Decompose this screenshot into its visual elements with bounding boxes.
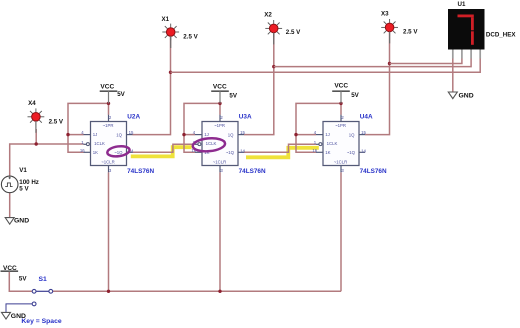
- wire VCC to U4A ~1PR pin: [340, 103, 342, 114]
- wire S1 lower throw to ground: [6, 304, 32, 312]
- wire VCC to U3A ~1PR pin: [219, 103, 221, 114]
- wire VCC branch to U2A 1J and 1K (J=K=1): [68, 103, 109, 152]
- svg-text:~1CLR: ~1CLR: [213, 159, 227, 164]
- power VCC symbol (above U3A): [211, 91, 229, 103]
- svg-text:14: 14: [361, 148, 366, 153]
- U4A pin stub 1J: [316, 134, 323, 136]
- U2A pin stub ~1PR (top): [108, 115, 110, 122]
- wire U3A ~1Q to U4A 1CLK: [244, 144, 316, 152]
- svg-text:~1Q: ~1Q: [226, 150, 235, 155]
- wire branch to U3A 1J: [184, 134, 195, 136]
- svg-text:~1PR: ~1PR: [335, 123, 346, 128]
- display U1 segment b (upper right bar of 7): [471, 17, 474, 30]
- svg-text:16: 16: [312, 148, 317, 153]
- wire U1 pin 1 to ground: [452, 59, 454, 93]
- wire branch to U4A 1J: [296, 134, 316, 136]
- svg-text:2: 2: [341, 115, 344, 120]
- svg-text:X1: X1: [162, 16, 170, 23]
- svg-text:2: 2: [109, 115, 112, 120]
- svg-text:VCC: VCC: [213, 83, 227, 90]
- U2A pin stub 1CLK with bubble: [84, 143, 87, 145]
- svg-text:~1PR: ~1PR: [214, 123, 225, 128]
- wire X1 stem: [170, 36, 172, 72]
- svg-text:GND: GND: [459, 92, 474, 99]
- svg-text:~1Q: ~1Q: [347, 150, 356, 155]
- junction clear bus at U2A: [107, 290, 110, 293]
- svg-text:GND: GND: [14, 217, 29, 224]
- svg-text:1K: 1K: [93, 150, 98, 155]
- U2A pin stub ~1Q: [127, 151, 133, 153]
- wire U2A ~1Q to U3A 1CLK: [133, 144, 196, 152]
- svg-text:VCC: VCC: [100, 83, 114, 90]
- display U1 pin 2: [461, 50, 463, 59]
- wire X3 net to display pin 2: [390, 59, 462, 64]
- svg-text:X2: X2: [264, 12, 272, 19]
- display U1 pin 4: [479, 50, 481, 59]
- U4A pin stub 1K: [316, 151, 323, 153]
- highlight mark on wire U2A ~1Q to U3A 1CLK: [131, 147, 192, 156]
- wire X2 stem: [273, 32, 275, 67]
- svg-text:~1PR: ~1PR: [103, 123, 114, 128]
- probe X1 stem: [170, 36, 172, 48]
- annotation ellipse around U3A 1CLK pin: [192, 137, 225, 153]
- svg-text:~1Q: ~1Q: [114, 150, 123, 155]
- wire VCC branch to U3A 1J and 1K (J=K=1): [184, 103, 220, 152]
- wire X2 net to display pin 3: [274, 59, 471, 67]
- svg-text:VCC: VCC: [3, 265, 17, 272]
- svg-text:~1CLR: ~1CLR: [101, 159, 115, 164]
- junction VCC branch at U3A 1J row: [182, 133, 185, 136]
- junction X4 / clock net: [35, 142, 38, 145]
- ground symbol (below S1): [2, 312, 11, 319]
- svg-text:74LS76N: 74LS76N: [360, 168, 387, 175]
- U4A pin stub 1Q: [359, 134, 365, 136]
- junction VCC stem U3A: [218, 102, 221, 105]
- display U1 DCD_HEX body: [448, 9, 485, 50]
- probe X3: [381, 19, 398, 36]
- wire X3 stem: [389, 31, 391, 64]
- svg-text:U4A: U4A: [360, 113, 373, 120]
- power VCC symbol (above U2A): [100, 91, 118, 103]
- U2A pin stub ~1CLR (bottom): [108, 166, 110, 173]
- wire clear bus (S1 net along bottom): [9, 272, 32, 292]
- wire VCC to U2A ~1PR pin: [108, 103, 110, 114]
- svg-text:GND: GND: [11, 313, 26, 320]
- display U1 segment a (top bar of 7): [458, 15, 474, 18]
- svg-text:1Q: 1Q: [349, 132, 355, 137]
- U3A pin stub ~1Q: [238, 151, 244, 153]
- wire X1 net to display pin 4: [171, 59, 481, 73]
- svg-text:1CLK: 1CLK: [94, 141, 105, 146]
- U4A pin stub ~1PR (top): [340, 115, 342, 122]
- svg-text:74LS76N: 74LS76N: [127, 168, 154, 175]
- svg-text:DCD_HEX: DCD_HEX: [486, 32, 516, 39]
- svg-text:5V: 5V: [117, 91, 125, 98]
- svg-text:15: 15: [240, 130, 245, 135]
- annotation ellipse around U2A ~1Q pin: [107, 145, 131, 158]
- svg-text:2.5 V: 2.5 V: [49, 119, 64, 126]
- junction VCC branch at U4A 1J row: [294, 133, 297, 136]
- wire U4A ~1CLR down to clear bus: [340, 172, 342, 291]
- U4A pin stub ~1Q: [359, 151, 365, 153]
- svg-text:5V: 5V: [351, 92, 359, 99]
- svg-text:X3: X3: [381, 10, 389, 17]
- wire branch to U2A 1J: [68, 134, 84, 136]
- highlight mark on wire U3A ~1Q to U4A 1CLK: [246, 148, 319, 158]
- svg-text:1Q: 1Q: [116, 132, 122, 137]
- wire U4A 1Q to X3 probe: [365, 64, 390, 135]
- ground symbol (below V1): [5, 218, 14, 225]
- svg-text:14: 14: [240, 148, 245, 153]
- svg-text:U1: U1: [458, 1, 466, 8]
- U3A pin stub ~1CLR (bottom): [219, 166, 221, 173]
- svg-text:5V: 5V: [229, 92, 237, 99]
- svg-text:~1CLR: ~1CLR: [334, 159, 348, 164]
- svg-text:16: 16: [80, 148, 85, 153]
- svg-text:U2A: U2A: [127, 113, 140, 120]
- svg-text:5V: 5V: [19, 275, 27, 282]
- svg-text:5 V: 5 V: [19, 186, 29, 193]
- svg-text:1J: 1J: [204, 132, 209, 137]
- source V1 (100 Hz 5 V clock): [1, 176, 18, 193]
- wire U2A ~1CLR down to clear bus: [108, 172, 110, 291]
- junction X1 net: [169, 71, 172, 74]
- U3A pin stub ~1PR (top): [219, 115, 221, 122]
- ground symbol (below U1): [448, 92, 457, 99]
- display U1 pin 1: [452, 50, 454, 59]
- U2A pin stub 1J: [84, 134, 91, 136]
- svg-text:V1: V1: [19, 167, 27, 174]
- U4A pin stub ~1CLR (bottom): [340, 166, 342, 173]
- display U1 segment c (lower right bar of 7): [471, 31, 474, 45]
- svg-text:2.5 V: 2.5 V: [183, 34, 198, 41]
- U3A pin stub 1K: [195, 151, 202, 153]
- svg-text:3: 3: [109, 168, 112, 173]
- probe X4 stem: [35, 121, 37, 133]
- svg-text:VCC: VCC: [334, 83, 348, 90]
- junction clear bus at U3A: [218, 290, 221, 293]
- junction VCC stem U2A: [107, 102, 110, 105]
- probe X4: [28, 108, 45, 125]
- svg-text:2.5 V: 2.5 V: [403, 28, 418, 35]
- flip-flop U4A (74LS76N JK) body: [323, 122, 359, 166]
- U3A pin stub 1J: [195, 134, 202, 136]
- wire V1 to X4 to U2A 1CLK (clock net): [10, 144, 84, 176]
- U4A pin stub 1CLK with bubble: [316, 143, 319, 145]
- svg-text:1CLK: 1CLK: [206, 141, 217, 146]
- U2A pin stub 1K: [84, 151, 91, 153]
- svg-text:15: 15: [129, 130, 134, 135]
- junction X3 net: [388, 62, 391, 65]
- U2A pin stub 1Q: [127, 134, 133, 136]
- svg-text:3: 3: [341, 168, 344, 173]
- junction X2 net: [272, 65, 275, 68]
- svg-text:U3A: U3A: [239, 113, 252, 120]
- svg-text:1K: 1K: [325, 150, 330, 155]
- junction VCC branch at U2A 1J row: [66, 133, 69, 136]
- junction VCC stem U4A: [339, 102, 342, 105]
- wire U3A 1Q to X2 probe: [244, 67, 274, 135]
- flip-flop U2A (74LS76N JK) body: [91, 122, 127, 166]
- probe X3 stem: [389, 32, 391, 44]
- wire U2A 1Q to X1 probe: [133, 72, 171, 134]
- svg-text:74LS76N: 74LS76N: [239, 168, 266, 175]
- flip-flop U3A (74LS76N JK) body: [202, 122, 238, 166]
- wire VCC branch to U4A 1J and 1K (J=K=1): [296, 103, 341, 152]
- U3A pin stub 1Q: [238, 134, 244, 136]
- probe X1: [162, 24, 179, 41]
- svg-text:X4: X4: [28, 100, 36, 107]
- svg-text:1Q: 1Q: [228, 132, 234, 137]
- U3A pin stub 1CLK with bubble: [195, 143, 198, 145]
- svg-text:Key = Space: Key = Space: [21, 318, 61, 325]
- probe X2: [265, 20, 282, 37]
- svg-text:1J: 1J: [93, 132, 98, 137]
- wire S1 to clear bus: [53, 290, 341, 292]
- svg-text:1J: 1J: [325, 132, 330, 137]
- display U1 pin 3: [470, 50, 472, 59]
- svg-text:3: 3: [220, 168, 223, 173]
- switch S1 (SPDT, key = space): [32, 289, 53, 305]
- wire U3A ~1CLR down to clear bus: [219, 172, 221, 291]
- svg-text:1CLK: 1CLK: [327, 141, 338, 146]
- power VCC symbol (above U4A): [332, 91, 350, 103]
- svg-text:2.5 V: 2.5 V: [286, 29, 301, 36]
- wire V1 to ground: [9, 193, 11, 218]
- svg-text:2: 2: [220, 115, 223, 120]
- probe X2 stem: [273, 33, 275, 45]
- svg-text:S1: S1: [39, 276, 48, 283]
- power VCC symbol (at S1): [1, 270, 19, 273]
- wire X4 stem to clock net: [35, 129, 37, 144]
- svg-text:15: 15: [361, 130, 366, 135]
